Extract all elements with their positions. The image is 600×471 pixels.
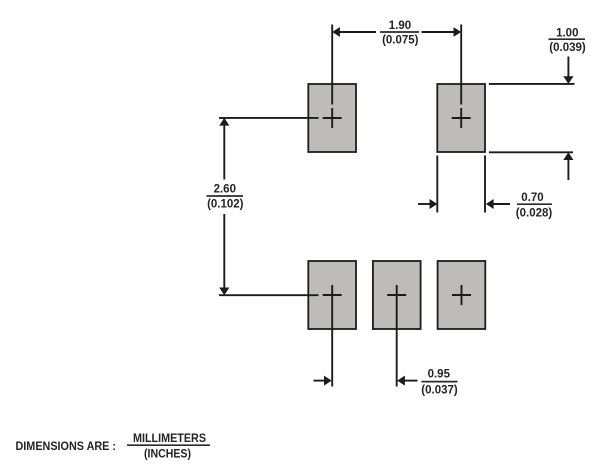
- center mark pad P1: [323, 108, 342, 128]
- pad P1 top-left: [308, 84, 356, 152]
- svg-text:1.00: 1.00: [556, 27, 578, 39]
- arrowhead right-pointing 0.95: [324, 376, 332, 386]
- arrowhead down 2.60: [219, 288, 229, 296]
- wire extension line x=461 for 1.90: [460, 25, 462, 105]
- arrowhead up 1.00: [563, 152, 573, 160]
- svg-text:(0.039): (0.039): [549, 42, 586, 54]
- arrowhead left 1.90: [332, 27, 340, 37]
- svg-text:(0.028): (0.028): [516, 208, 553, 220]
- wire dimension line 2.60: [223, 119, 225, 294]
- svg-text:(0.037): (0.037): [421, 385, 458, 397]
- pad P3 bottom-left: [308, 261, 356, 329]
- fraction bar 2.60: [207, 195, 244, 197]
- wire extension line x=485 for 0.70: [484, 156, 486, 213]
- wire extension line y=118 for 2.60: [219, 117, 319, 119]
- arrowhead down 1.00: [563, 76, 573, 84]
- wire extension line x=437 for 0.70: [436, 156, 438, 213]
- fraction bar 1.90: [380, 31, 419, 33]
- wire bottom horizontal line for 1.00: [489, 151, 573, 153]
- arrowhead up 2.60: [219, 118, 229, 126]
- svg-text:0.95: 0.95: [428, 369, 451, 381]
- svg-text:(INCHES): (INCHES): [144, 446, 191, 460]
- arrowhead left-pointing 0.95: [397, 376, 405, 386]
- wire center line pad P4 for 0.95: [396, 285, 398, 387]
- fraction bar 0.95: [422, 381, 458, 383]
- fraction bar 0.70: [517, 203, 552, 205]
- center mark pad P4: [387, 294, 406, 296]
- svg-text:DIMENSIONS ARE :: DIMENSIONS ARE :: [16, 439, 117, 453]
- arrowhead right-pointing 0.70: [430, 199, 438, 209]
- wire arrow shaft left side 0.95: [314, 380, 327, 382]
- arrowhead right 1.90: [454, 27, 462, 37]
- pad P5 bottom-right: [438, 261, 486, 329]
- center mark pad P3: [323, 294, 342, 296]
- svg-text:(0.102): (0.102): [207, 199, 244, 211]
- wire center line pad P3 for 0.95: [331, 285, 333, 387]
- svg-text:1.90: 1.90: [389, 20, 411, 32]
- svg-text:MILLIMETERS: MILLIMETERS: [133, 431, 206, 445]
- wire arrow shaft up 1.00: [567, 160, 569, 181]
- fraction bar MILLIMETERS/(INCHES): [127, 444, 210, 446]
- pad P2 top-right: [437, 84, 485, 152]
- wire arrow shaft right side 0.70: [492, 203, 510, 205]
- center mark pad P2: [452, 108, 471, 128]
- wire extension line y=295 for 2.60: [219, 294, 319, 296]
- wire dimension line 1.90: [338, 31, 456, 33]
- wire arrow shaft down 1.00: [567, 57, 569, 78]
- wire arrow shaft left side 0.70: [418, 203, 431, 205]
- wire arrow shaft right side 0.95: [404, 380, 418, 382]
- svg-text:0.70: 0.70: [521, 192, 543, 204]
- pad P4 bottom-middle: [373, 261, 421, 329]
- svg-text:(0.075): (0.075): [382, 35, 419, 47]
- wire top horizontal line for 1.00: [489, 83, 575, 85]
- arrowhead left-pointing 0.70: [486, 199, 494, 209]
- wire extension line x=332 for 1.90: [331, 25, 333, 105]
- svg-text:2.60: 2.60: [214, 183, 236, 195]
- fraction bar 1.00: [549, 38, 586, 40]
- center mark pad P5: [452, 285, 471, 305]
